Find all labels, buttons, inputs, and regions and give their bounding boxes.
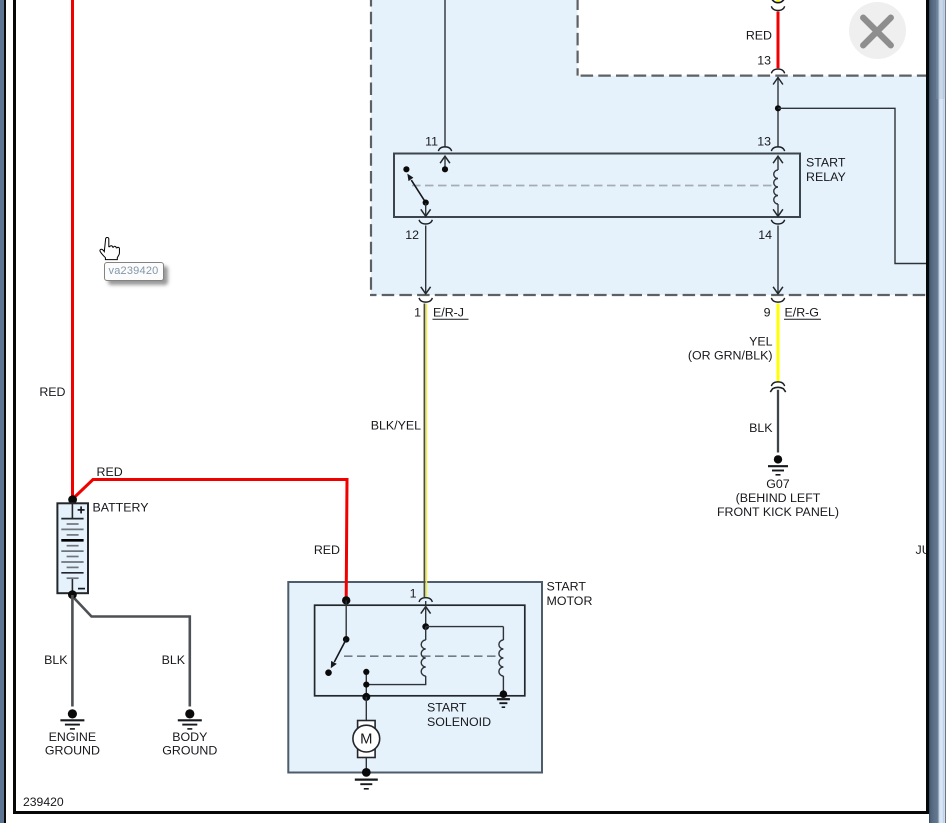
svg-text:1: 1 — [414, 306, 421, 320]
svg-text:BLK: BLK — [162, 653, 186, 667]
svg-text:RED: RED — [746, 28, 772, 42]
svg-text:START: START — [427, 700, 467, 714]
svg-text:RED: RED — [314, 543, 340, 557]
svg-text:BLK: BLK — [749, 421, 773, 435]
svg-text:239420: 239420 — [23, 795, 64, 809]
svg-text:BODY: BODY — [172, 730, 207, 744]
svg-text:GROUND: GROUND — [162, 744, 217, 758]
svg-text:ENGINE: ENGINE — [49, 730, 97, 744]
svg-text:MOTOR: MOTOR — [547, 594, 593, 608]
svg-text:BATTERY: BATTERY — [93, 500, 149, 514]
svg-text:M: M — [360, 732, 372, 748]
svg-text:11: 11 — [425, 134, 438, 148]
svg-text:BLK: BLK — [44, 653, 68, 667]
svg-text:13: 13 — [757, 53, 771, 67]
svg-text:9: 9 — [764, 306, 771, 320]
svg-text:14: 14 — [758, 228, 772, 242]
svg-text:RED: RED — [39, 385, 65, 399]
svg-text:RELAY: RELAY — [806, 170, 846, 184]
svg-text:GROUND: GROUND — [45, 744, 100, 758]
svg-text:FRONT KICK PANEL): FRONT KICK PANEL) — [717, 505, 839, 519]
svg-text:12: 12 — [405, 228, 419, 242]
svg-text:1: 1 — [410, 586, 417, 600]
svg-text:RED: RED — [97, 465, 123, 479]
svg-text:SOLENOID: SOLENOID — [427, 715, 491, 729]
svg-text:(BEHIND LEFT: (BEHIND LEFT — [736, 491, 821, 505]
svg-text:E/R-G: E/R-G — [785, 306, 819, 320]
svg-text:(OR GRN/BLK): (OR GRN/BLK) — [688, 348, 773, 362]
svg-text:START: START — [547, 580, 587, 594]
svg-text:BLK/YEL: BLK/YEL — [371, 418, 421, 432]
svg-text:13: 13 — [757, 134, 771, 148]
svg-text:YEL: YEL — [749, 334, 773, 348]
svg-text:G07: G07 — [766, 477, 790, 491]
svg-text:E/R-J: E/R-J — [433, 306, 464, 320]
svg-text:START: START — [806, 156, 846, 170]
